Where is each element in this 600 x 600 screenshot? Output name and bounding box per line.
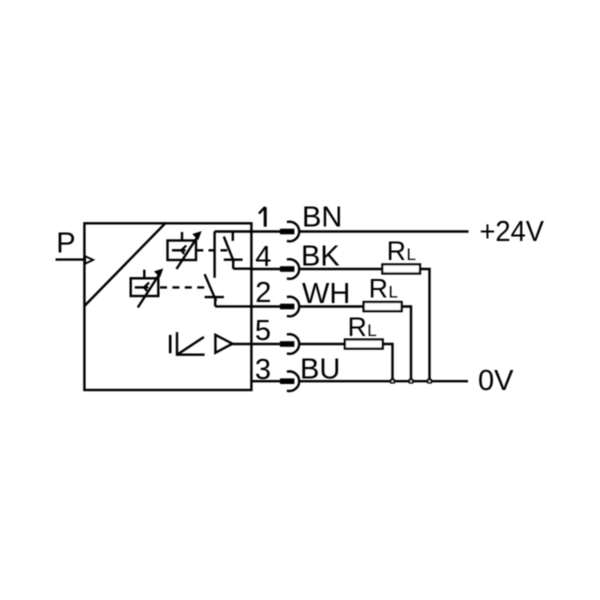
svg-text:RL: RL bbox=[387, 236, 416, 266]
svg-text:2: 2 bbox=[255, 277, 271, 309]
svg-text:0V: 0V bbox=[478, 365, 514, 397]
svg-text:BN: BN bbox=[302, 202, 342, 234]
svg-text:RL: RL bbox=[369, 274, 398, 304]
svg-text:3: 3 bbox=[255, 354, 271, 386]
svg-text:BK: BK bbox=[301, 240, 340, 272]
svg-text:WH: WH bbox=[302, 278, 350, 310]
svg-text:+24V: +24V bbox=[480, 216, 545, 248]
svg-text:BU: BU bbox=[300, 354, 340, 386]
svg-text:P: P bbox=[56, 227, 75, 259]
svg-text:4: 4 bbox=[255, 241, 271, 273]
svg-text:5: 5 bbox=[255, 315, 271, 347]
svg-text:RL: RL bbox=[348, 312, 377, 342]
